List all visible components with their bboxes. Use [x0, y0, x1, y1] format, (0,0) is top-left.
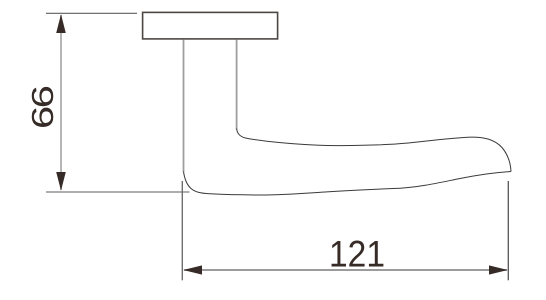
- svg-text:66: 66: [25, 87, 59, 129]
- arrow right (121 dim): [489, 265, 508, 274]
- lever bottom outline: [184, 172, 512, 196]
- neck left line: [183, 40, 185, 173]
- neck right line: [236, 40, 238, 130]
- lever top outline: [237, 129, 511, 172]
- arrow left (121 dim): [183, 265, 202, 274]
- extension line bottom horizontal (66 dim): [46, 191, 190, 193]
- extension line top horizontal (66 dim): [46, 12, 137, 14]
- dimension line 66 vertical: [60, 15, 62, 190]
- rose rectangle (escutcheon side view): [143, 12, 278, 39]
- extension line left vertical (121 dim): [181, 181, 183, 280]
- arrow up (66 dim): [56, 14, 66, 33]
- arrow down (66 dim): [56, 172, 66, 191]
- svg-text:121: 121: [329, 234, 385, 275]
- dimension line 121 horizontal: [184, 269, 507, 271]
- extension line right vertical (121 dim): [507, 181, 509, 280]
